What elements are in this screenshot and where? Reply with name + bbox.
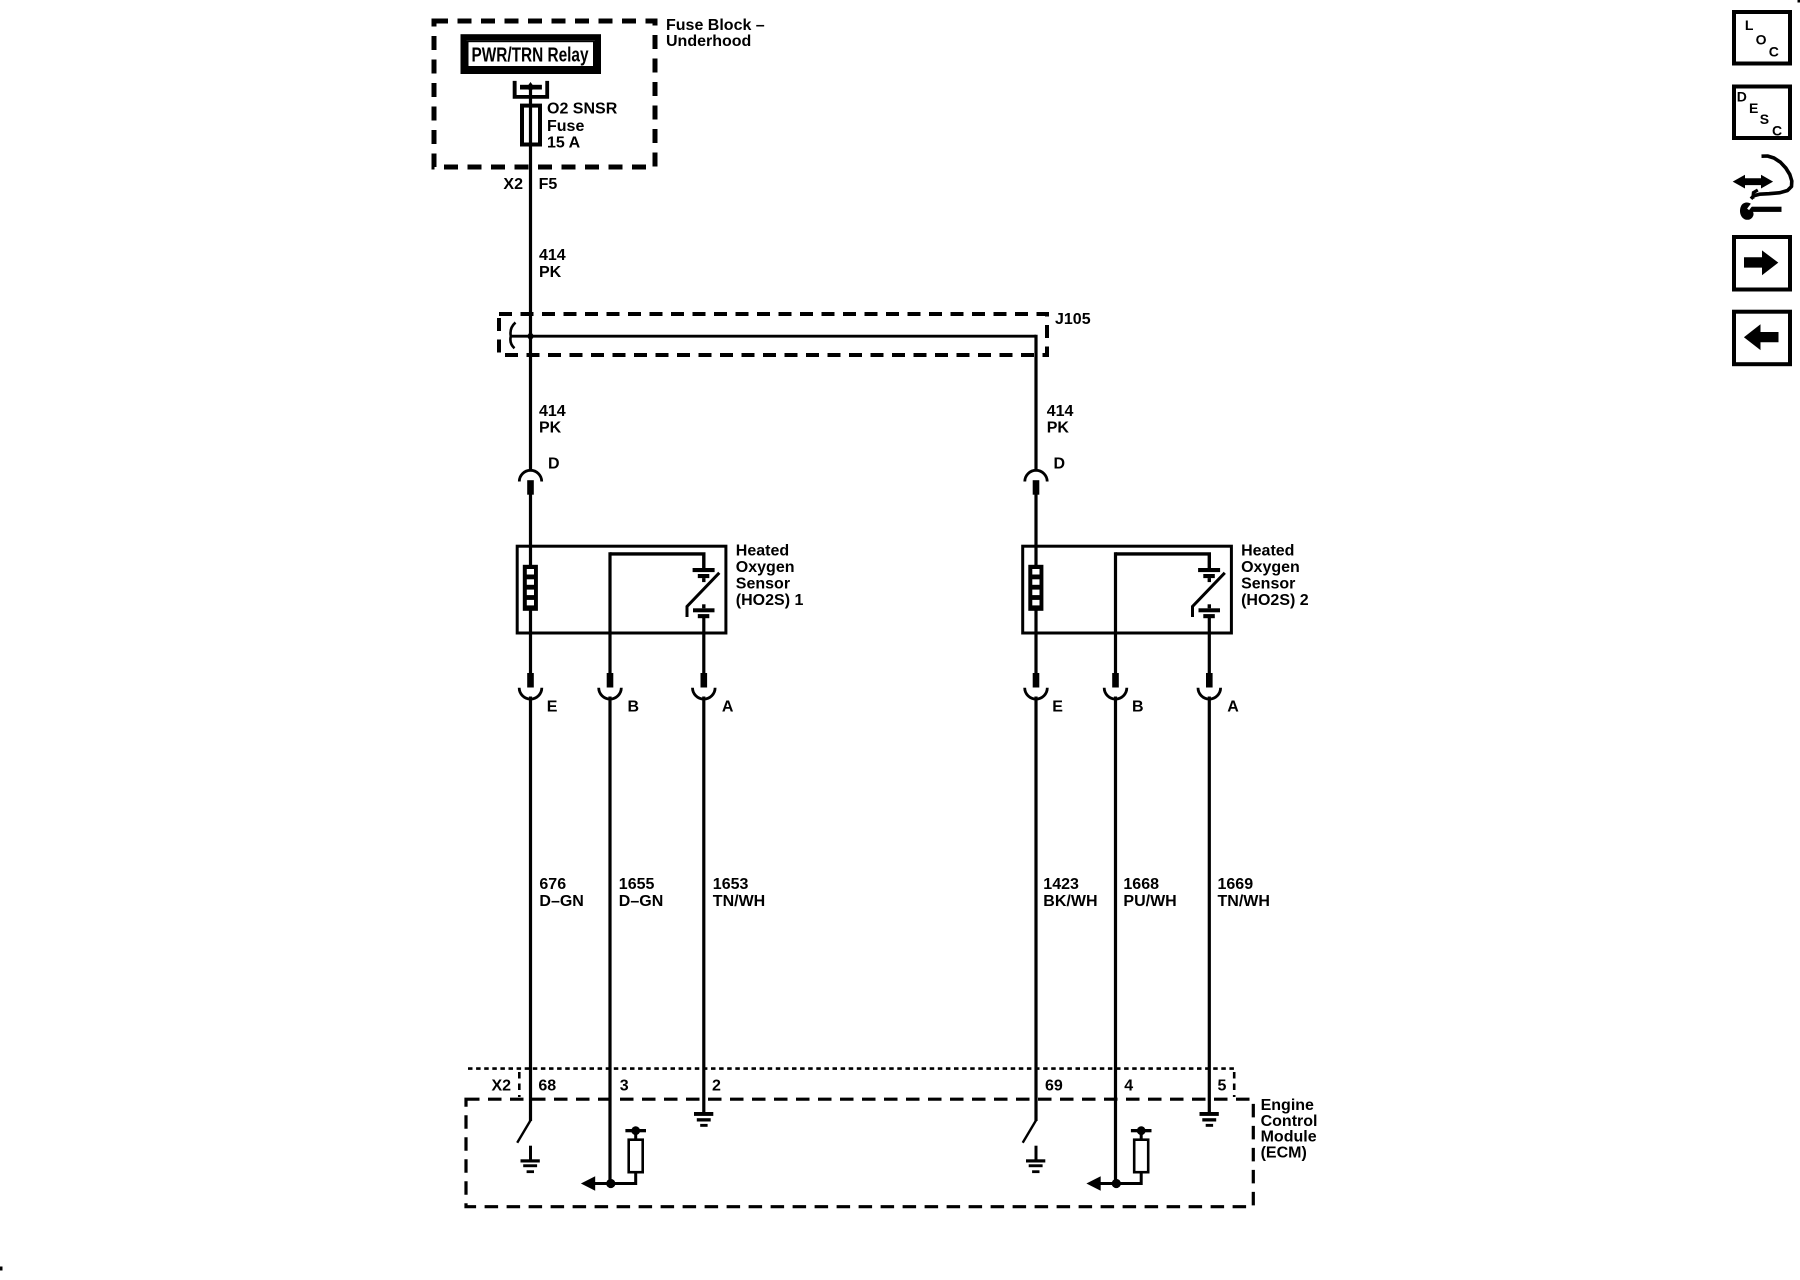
label A HO2S2 — [1227, 699, 1239, 716]
wire 676 D-GN from HO2S1 E to ECM pin 68 — [529, 697, 532, 1122]
resistor internal ECM pin 3 pull-up — [611, 1126, 646, 1183]
svg-text:Module: Module — [1261, 1129, 1317, 1146]
pin 3 label — [620, 1078, 629, 1095]
label B HO2S2 — [1132, 699, 1144, 716]
sensor cell (variable voltage) HO2S1 — [687, 568, 719, 618]
label wire 676 D-GN — [539, 876, 583, 910]
svg-text:TN/WH: TN/WH — [1218, 893, 1270, 910]
svg-text:O: O — [1756, 31, 1767, 47]
heated oxygen sensor HO2S2 box — [1023, 546, 1232, 633]
svg-text:1655: 1655 — [619, 876, 655, 893]
label Fuse Block - Underhood — [666, 17, 765, 50]
svg-text:414: 414 — [539, 247, 566, 264]
icon back arrow button — [1734, 312, 1790, 365]
svg-text:PWR/TRN Relay: PWR/TRN Relay — [472, 45, 590, 67]
svg-text:4: 4 — [1124, 1078, 1133, 1095]
pin 2 label — [712, 1078, 721, 1095]
svg-text:(HO2S) 1: (HO2S) 1 — [736, 592, 804, 609]
ground internal ECM pin 5 — [1200, 1112, 1219, 1127]
svg-text:A: A — [1227, 699, 1239, 716]
svg-text:B: B — [628, 699, 640, 716]
svg-text:(ECM): (ECM) — [1261, 1145, 1307, 1162]
fuse O2 SNSR 15A — [522, 106, 540, 145]
svg-text:Heated: Heated — [736, 543, 789, 560]
label Heated Oxygen Sensor (HO2S) 1 — [736, 543, 804, 610]
connector E HO2S2 (terminal and arc) — [1025, 673, 1048, 699]
label O2 SNSR Fuse 15 A — [547, 101, 618, 152]
svg-text:BK/WH: BK/WH — [1043, 893, 1097, 910]
svg-text:D–GN: D–GN — [619, 893, 663, 910]
ECM connector row left dotted tick X2 — [518, 1072, 521, 1097]
pin 5 label — [1218, 1078, 1227, 1095]
label wire 414 PK right below splice — [1047, 403, 1074, 436]
icon DESC button — [1734, 87, 1790, 139]
wire HO2S2 pin A from sensor cell to connector A — [1208, 617, 1211, 674]
icon forward arrow button — [1734, 237, 1790, 290]
node junction dot on J105 bus — [527, 331, 535, 341]
svg-text:D: D — [548, 456, 560, 473]
svg-text:Oxygen: Oxygen — [736, 559, 795, 576]
svg-text:68: 68 — [538, 1078, 556, 1095]
label E HO2S1 — [547, 699, 558, 716]
wire HO2S1 pin B internal down to connector B — [608, 552, 611, 673]
svg-text:Heated: Heated — [1241, 543, 1294, 560]
connector D HO2S1 (arc and terminal) — [519, 470, 541, 494]
svg-text:3: 3 — [620, 1078, 629, 1095]
label wire 1423 BK/WH — [1043, 876, 1097, 910]
svg-text:PU/WH: PU/WH — [1123, 893, 1176, 910]
icon wiring tools (double arrow, harness outline, wrench) — [1733, 156, 1792, 220]
wire 1655 D-GN from HO2S1 B to ECM pin 3 — [608, 697, 611, 1184]
ECM dashed box — [466, 1099, 1253, 1207]
wire HO2S1 pin A from sensor cell to connector A — [702, 617, 705, 674]
label E HO2S2 — [1052, 699, 1063, 716]
svg-text:PK: PK — [539, 419, 562, 436]
svg-text:Underhood: Underhood — [666, 33, 751, 50]
svg-text:676: 676 — [539, 876, 566, 893]
pin 69 label — [1045, 1078, 1063, 1095]
connector E HO2S1 (terminal and arc) — [519, 673, 542, 699]
splice clip symbol — [510, 323, 515, 349]
node junction dot ECM pin 4 — [1112, 1179, 1121, 1188]
svg-text:Oxygen: Oxygen — [1241, 559, 1300, 576]
wire HO2S1 pin E down through heater to connector E — [529, 494, 532, 674]
label wire 1653 TN/WH — [713, 876, 765, 910]
relay output terminal bracket — [513, 81, 549, 99]
svg-text:E: E — [1749, 100, 1758, 116]
switch internal ECM pin 68 — [517, 1120, 530, 1142]
node relay output junction diamond — [527, 82, 534, 92]
wire 1653 TN/WH from HO2S1 A to ECM pin 2 — [702, 697, 705, 1114]
svg-text:D: D — [1737, 89, 1747, 105]
heated oxygen sensor HO2S1 box — [517, 546, 726, 633]
svg-text:69: 69 — [1045, 1078, 1063, 1095]
svg-text:414: 414 — [539, 403, 566, 420]
label F5 fuse position — [539, 176, 558, 193]
svg-text:414: 414 — [1047, 403, 1074, 420]
svg-text:Fuse Block –: Fuse Block – — [666, 17, 765, 34]
wire HO2S2 pin E down through heater to connector E — [1034, 494, 1037, 674]
connector B HO2S2 (terminal and arc) — [1104, 673, 1127, 699]
wire 414 PK right branch from J105 down to HO2S2 connector D — [1034, 335, 1037, 469]
svg-text:1668: 1668 — [1123, 876, 1159, 893]
svg-text:Fuse: Fuse — [547, 118, 584, 135]
svg-text:X2: X2 — [492, 1077, 512, 1094]
svg-text:D: D — [1054, 456, 1066, 473]
label D HO2S1 — [548, 456, 560, 473]
wire 1668 PU/WH from HO2S2 B to ECM pin 4 — [1114, 697, 1117, 1184]
svg-text:Sensor: Sensor — [1241, 576, 1295, 593]
svg-text:O2 SNSR: O2 SNSR — [547, 101, 618, 118]
page corner mark top right — [1798, 0, 1800, 3]
heater element HO2S2 — [1028, 565, 1043, 611]
wire splice bus J105 horizontal — [511, 335, 1037, 338]
connector A HO2S2 (terminal and arc) — [1198, 673, 1221, 699]
wire 1669 TN/WH from HO2S2 A to ECM pin 5 — [1208, 697, 1211, 1114]
label wire 1668 PU/WH — [1123, 876, 1176, 910]
ground internal ECM pin 2 — [694, 1112, 713, 1127]
svg-text:C: C — [1769, 44, 1779, 60]
pin 68 label — [538, 1078, 556, 1095]
svg-text:S: S — [1760, 111, 1769, 127]
ECM connector row right dotted tick — [1233, 1072, 1236, 1097]
relay PWR/TRN Relay box — [464, 37, 599, 71]
svg-text:(HO2S) 2: (HO2S) 2 — [1241, 592, 1309, 609]
svg-text:1669: 1669 — [1218, 876, 1254, 893]
svg-text:A: A — [722, 699, 734, 716]
svg-text:PK: PK — [1047, 419, 1070, 436]
svg-text:D–GN: D–GN — [539, 893, 583, 910]
wire 414 PK from fuse F5 down to splice J105 and on to HO2S1 connector D — [529, 87, 532, 469]
connector A HO2S1 (terminal and arc) — [693, 673, 716, 699]
svg-text:X2: X2 — [503, 176, 523, 193]
icon LOC button — [1734, 12, 1790, 64]
node junction dot ECM pin 3 — [606, 1179, 615, 1188]
svg-text:L: L — [1745, 17, 1754, 33]
label X2 ECM connector — [492, 1077, 512, 1094]
svg-text:Control: Control — [1261, 1113, 1318, 1130]
svg-text:1423: 1423 — [1043, 876, 1079, 893]
svg-text:B: B — [1132, 699, 1144, 716]
svg-text:E: E — [1052, 699, 1063, 716]
ECM connector row dotted line — [468, 1067, 1236, 1070]
ground internal ECM below pin 68 switch — [521, 1146, 540, 1173]
page corner mark bottom left — [0, 1267, 3, 1271]
label X2 fuse block connector — [503, 176, 523, 193]
label wire 414 PK upper — [539, 247, 566, 281]
wire HO2S1 internal from B riser to sensor cell — [610, 554, 704, 568]
signal arrow internal ECM pin 3 — [581, 1176, 610, 1191]
svg-text:5: 5 — [1218, 1078, 1227, 1095]
label D HO2S2 — [1054, 456, 1066, 473]
sensor cell (variable voltage) HO2S2 — [1193, 568, 1225, 618]
label wire 414 PK left below splice — [539, 403, 566, 436]
heater element HO2S1 — [523, 565, 538, 611]
ground internal ECM below pin 69 switch — [1026, 1146, 1045, 1173]
svg-text:Sensor: Sensor — [736, 576, 790, 593]
label wire 1669 TN/WH — [1218, 876, 1270, 910]
svg-text:2: 2 — [712, 1078, 721, 1095]
connector B HO2S1 (terminal and arc) — [599, 673, 622, 699]
connector D HO2S2 (arc and terminal) — [1025, 470, 1047, 494]
pin 4 label — [1124, 1078, 1133, 1095]
splice pack J105 dashed box — [499, 314, 1047, 355]
svg-text:1653: 1653 — [713, 876, 749, 893]
resistor internal ECM pin 4 pull-up — [1116, 1126, 1151, 1183]
svg-text:PK: PK — [539, 264, 562, 281]
wire 1423 BK/WH from HO2S2 E to ECM pin 69 — [1034, 697, 1037, 1122]
signal arrow internal ECM pin 4 — [1086, 1176, 1115, 1191]
label wire 1655 D-GN — [619, 876, 663, 910]
fuse block underhood dashed box — [434, 21, 655, 167]
svg-text:C: C — [1772, 123, 1782, 139]
label B HO2S1 — [628, 699, 640, 716]
svg-text:TN/WH: TN/WH — [713, 893, 765, 910]
label A HO2S1 — [722, 699, 734, 716]
label Engine Control Module (ECM) — [1261, 1097, 1318, 1162]
svg-text:J105: J105 — [1055, 311, 1091, 328]
wire HO2S2 internal from B riser to sensor cell — [1116, 554, 1210, 568]
svg-text:E: E — [547, 699, 558, 716]
switch internal ECM pin 69 — [1023, 1120, 1036, 1142]
label Heated Oxygen Sensor (HO2S) 2 — [1241, 543, 1309, 610]
svg-text:15 A: 15 A — [547, 134, 581, 151]
wire HO2S2 pin B internal down to connector B — [1114, 552, 1117, 673]
label J105 — [1055, 311, 1091, 328]
svg-text:Engine: Engine — [1261, 1097, 1314, 1114]
svg-text:F5: F5 — [539, 176, 558, 193]
